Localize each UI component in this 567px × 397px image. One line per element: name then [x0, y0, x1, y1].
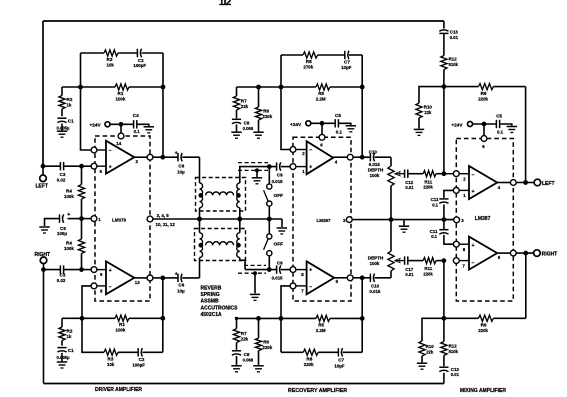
terminal LEFT input — [40, 175, 47, 182]
svg-text:ASSMB: ASSMB — [201, 299, 219, 305]
svg-text:R8: R8 — [306, 59, 312, 64]
pin 6 V+ recovery — [319, 134, 325, 140]
node R6 top upper — [256, 85, 261, 90]
wire C1 to ground upper — [61, 124, 63, 131]
svg-text:OFF: OFF — [274, 241, 284, 246]
wire R3 to C2 upper — [118, 52, 137, 54]
svg-text:+: + — [309, 164, 312, 170]
svg-text:RIGHT: RIGHT — [35, 252, 51, 258]
wire drive coil to ground bus lower — [199, 219, 201, 233]
pin 8 input + recovery lower — [290, 267, 296, 273]
resistor R9 lower 220k — [444, 317, 479, 319]
svg-text:R9: R9 — [481, 323, 487, 328]
svg-text:LEFT: LEFT — [542, 181, 555, 187]
node R7 corner lower — [235, 317, 238, 320]
capacitor C11 lower 0.1 — [439, 229, 448, 231]
wire drive coil to ground bus upper — [199, 208, 201, 219]
wire right input dropper — [43, 270, 45, 384]
pin 8 input - lower driver — [91, 283, 97, 289]
capacitor C12 0.01 — [404, 170, 406, 178]
op-amp U2a recovery upper half — [307, 141, 334, 174]
capacitor C7 upper 10pF — [344, 51, 346, 59]
wire feedback column to output lower — [525, 253, 527, 318]
wire feedback right column recovery upper — [361, 55, 363, 157]
wire feedback right column lower driver — [162, 278, 164, 352]
svg-text:4: 4 — [335, 160, 338, 165]
shield dashed upper cable — [238, 162, 268, 164]
wire C1 to ground lower — [61, 353, 63, 361]
wire R10 branch lower — [422, 318, 444, 341]
svg-text:0.068: 0.068 — [243, 126, 254, 131]
svg-text:R5: R5 — [318, 91, 324, 96]
svg-text:OFF: OFF — [274, 193, 284, 198]
svg-text:−: − — [472, 172, 475, 178]
resistor R5 upper 2.2M — [281, 86, 316, 88]
svg-text:2.2M: 2.2M — [316, 328, 326, 333]
svg-text:220k: 220k — [304, 362, 314, 367]
svg-text:−: − — [309, 284, 312, 290]
capacitor C5 0.1 recovery — [334, 119, 336, 127]
capacitor C9 upper 0.015 — [276, 162, 278, 170]
svg-text:4: 4 — [498, 185, 501, 190]
pin 14 V+ driver — [118, 133, 124, 139]
svg-text:C9: C9 — [277, 260, 283, 265]
svg-text:R2: R2 — [67, 97, 73, 102]
wire C3 to driver +in — [64, 165, 92, 167]
node supply recovery — [320, 121, 325, 126]
svg-text:7: 7 — [462, 263, 465, 268]
IC U2 LM387 dashed outline — [293, 137, 351, 301]
node pickup coil bus upper — [237, 217, 242, 222]
transformer tank lower dashed case — [195, 229, 246, 261]
wire feedback left column recovery lower — [281, 286, 290, 352]
svg-text:C2: C2 — [138, 58, 144, 63]
wire feedback right column recovery lower — [361, 278, 363, 353]
ground C6 — [39, 226, 49, 228]
wire pin6 stub recovery — [321, 123, 323, 134]
wire pickup coil to ground bus lower — [239, 219, 241, 233]
svg-text:+: + — [472, 189, 475, 195]
svg-text:510k: 510k — [449, 62, 459, 67]
wire left terminal stub — [42, 166, 44, 175]
node R1 right lower — [160, 316, 165, 321]
svg-text:R10: R10 — [424, 105, 433, 110]
capacitor C8 lower 0.068 — [236, 343, 238, 350]
resistor R7 lower 22k — [236, 318, 238, 328]
node right input junction — [41, 267, 46, 272]
pin 3 ground mixing — [454, 217, 460, 223]
resistor R11 upper 220k — [423, 171, 436, 177]
wire C4 to ground — [137, 124, 149, 126]
node mixing output lower — [523, 251, 528, 256]
pin 9 input + lower driver — [91, 267, 97, 273]
svg-text:+: + — [175, 271, 178, 277]
svg-text:ACCUTRONICS: ACCUTRONICS — [201, 305, 239, 311]
capacitor C8 upper 0.068 — [236, 110, 238, 118]
transformer tank upper dashed case — [196, 178, 246, 212]
wire output lower driver — [134, 277, 147, 279]
wire feedback left column recovery upper — [281, 55, 290, 150]
pin 5 output recovery lower — [347, 275, 353, 281]
svg-text:+: + — [472, 243, 475, 249]
node supply driver — [119, 122, 124, 127]
wire EQ row lower — [237, 317, 282, 319]
svg-text:R1: R1 — [119, 322, 125, 327]
svg-text:+24V: +24V — [451, 122, 463, 127]
node switch tap lower — [267, 267, 272, 272]
svg-text:0.015: 0.015 — [272, 275, 284, 280]
node feedback upper driver — [78, 85, 83, 90]
pin 2 input - mixing upper — [453, 171, 459, 177]
pin 7 input - mixing lower — [453, 258, 459, 264]
svg-text:2: 2 — [302, 151, 305, 156]
svg-text:LM387: LM387 — [317, 218, 332, 223]
wiper arrow DEPTH lower — [395, 260, 405, 262]
node left signal junction — [79, 164, 84, 169]
svg-text:+: + — [175, 151, 178, 157]
wiper arrow DEPTH upper — [395, 173, 405, 175]
wire pin1 to C11 upper — [444, 190, 454, 198]
ground R6 upper — [253, 131, 263, 133]
wire R8C7 loop bottom lower — [281, 351, 303, 353]
svg-text:0.015: 0.015 — [272, 179, 284, 184]
wire output recovery lower — [334, 277, 347, 279]
node recovery output upper — [360, 155, 365, 160]
svg-text:−: − — [472, 260, 475, 266]
svg-text:C13: C13 — [450, 30, 459, 35]
svg-text:C11: C11 — [430, 229, 438, 234]
node mixing feedback lower — [442, 316, 447, 321]
resistor R6 upper 220k — [258, 87, 260, 107]
wire C3 to driver +in lower — [64, 269, 92, 271]
svg-text:0.1: 0.1 — [431, 234, 437, 239]
IC U3 LM387 dashed outline — [456, 139, 513, 302]
ground shield lower — [250, 293, 260, 295]
node mixing output upper — [523, 180, 528, 185]
wire R3C2 loop bottom lower — [82, 318, 104, 352]
node mixing feedback upper — [442, 84, 447, 89]
wire top dry-left feed — [43, 20, 444, 22]
pin 4 output recovery upper — [347, 154, 353, 160]
svg-text:2.2M: 2.2M — [316, 97, 326, 102]
resistor R3 lower 10k — [104, 349, 118, 355]
wire drive coil bottom lower — [199, 258, 201, 278]
svg-text:0.01: 0.01 — [450, 35, 459, 40]
svg-text:0.068: 0.068 — [243, 358, 254, 363]
svg-text:R3: R3 — [108, 356, 114, 361]
svg-text:C1: C1 — [68, 118, 74, 123]
ground shield upper — [252, 177, 262, 179]
svg-text:+: + — [309, 268, 312, 274]
wire feedback right column upper driver — [162, 53, 164, 157]
svg-text:1: 1 — [98, 217, 101, 222]
node shield ground upper — [255, 168, 259, 172]
svg-text:13: 13 — [135, 280, 140, 285]
svg-text:10, 11, 12: 10, 11, 12 — [156, 222, 176, 227]
svg-text:+: + — [109, 268, 112, 274]
svg-text:C3: C3 — [60, 172, 66, 177]
svg-text:C12: C12 — [405, 180, 414, 185]
svg-text:22k: 22k — [241, 337, 249, 342]
svg-text:2: 2 — [463, 176, 466, 181]
ground C8 upper — [231, 131, 241, 133]
svg-text:RECOVERY AMPLIFIER: RECOVERY AMPLIFIER — [288, 388, 347, 394]
wire C8 to ground lower — [236, 356, 238, 365]
node bias center — [79, 216, 84, 221]
ground C5 mixing — [507, 126, 517, 128]
node mixing ground junction — [442, 217, 447, 222]
svg-text:220k: 220k — [423, 185, 433, 190]
svg-text:9: 9 — [100, 272, 103, 277]
op-amp U1a driver upper half — [106, 141, 134, 174]
wire right input to C3 — [44, 269, 61, 271]
svg-text:2: 2 — [136, 159, 139, 164]
svg-text:LM387: LM387 — [475, 216, 491, 222]
node supply mixing — [482, 122, 487, 127]
ground C4 — [144, 126, 154, 128]
svg-text:C6: C6 — [178, 164, 184, 169]
svg-text:0.015: 0.015 — [369, 289, 381, 294]
svg-text:+: + — [109, 165, 112, 171]
wire R1 row lower — [62, 317, 115, 319]
svg-text:10k: 10k — [107, 362, 115, 367]
node drive coil bus upper — [197, 217, 202, 222]
resistor R5 lower 2.2M — [281, 317, 316, 319]
svg-text:112: 112 — [219, 0, 232, 8]
node driver output upper — [160, 155, 165, 160]
svg-text:DRIVER AMPLIFIER: DRIVER AMPLIFIER — [95, 387, 142, 393]
wire feedback left column upper driver — [81, 53, 92, 150]
wire pin8 to C11 lower — [444, 235, 454, 244]
svg-text:1: 1 — [302, 169, 305, 174]
pin 1 input + recovery upper — [290, 164, 296, 170]
svg-text:14: 14 — [116, 141, 122, 146]
wire pickup coil top upper to C9 — [240, 167, 277, 183]
svg-text:0.1: 0.1 — [336, 130, 343, 135]
pin 3 ground recovery — [346, 217, 352, 223]
node feedback lower driver — [80, 316, 85, 321]
pin 6 input + upper driver — [91, 163, 97, 169]
svg-text:4502C1A: 4502C1A — [201, 312, 223, 318]
capacitor C2 upper 100pF — [136, 49, 138, 57]
svg-text:0.01: 0.01 — [451, 372, 460, 377]
node right signal junction — [79, 267, 84, 272]
node mixing input lower — [442, 258, 447, 263]
svg-text:C2: C2 — [139, 357, 145, 362]
svg-text:R4: R4 — [66, 241, 72, 246]
wire C6 to ground — [45, 219, 60, 226]
node R1 right upper — [161, 85, 166, 90]
capacitor C11 upper 0.1 — [439, 198, 448, 200]
svg-text:R12: R12 — [449, 344, 458, 349]
node drive coil bus lower — [197, 217, 202, 222]
svg-text:10µ: 10µ — [177, 288, 185, 293]
pin input - upper driver — [91, 147, 97, 153]
wire R8 to C7 lower — [318, 351, 338, 353]
resistor R2 lower 1k — [61, 318, 63, 327]
wire R8 to C7 upper — [318, 54, 345, 56]
capacitor C9 lower 0.015 — [245, 269, 277, 271]
pin 3,4,5,10,11,12 ground driver — [147, 216, 153, 222]
IC U1 LM378 dashed outline — [95, 136, 150, 301]
shield dashed lower cable — [244, 264, 266, 266]
pin 13 output lower driver — [147, 275, 153, 281]
resistor R8 lower 220k — [303, 349, 318, 355]
wire R1 row upper — [62, 86, 115, 88]
capacitor C5 0.1 mixing — [495, 120, 497, 128]
svg-text:8: 8 — [100, 289, 103, 294]
wire C11 to ground node upper — [443, 205, 445, 220]
pin 8 input + mixing lower — [453, 241, 459, 247]
capacitor C13 bottom 0.01 — [439, 366, 448, 368]
capacitor C6 100u bypass — [68, 218, 82, 220]
node feedback recovery upper — [279, 85, 284, 90]
capacitor C6 10u coupling upper — [163, 156, 178, 158]
node feedback recovery lower — [279, 316, 284, 321]
node R5 right lower — [360, 316, 365, 321]
node recovery output lower — [360, 275, 365, 280]
wire R10 branch upper — [419, 87, 444, 103]
svg-text:22k: 22k — [241, 104, 249, 109]
svg-text:R9: R9 — [481, 91, 487, 96]
resistor R8 upper 270k — [281, 54, 303, 56]
svg-text:C1: C1 — [68, 348, 74, 353]
svg-text:C5: C5 — [496, 114, 502, 119]
wire pin6 stub mixing — [483, 124, 485, 136]
wire EQ row upper — [237, 86, 282, 88]
svg-text:−: − — [109, 285, 112, 291]
capacitor C4 0.1 bypass — [133, 120, 135, 128]
svg-text:LM378: LM378 — [112, 217, 127, 222]
svg-text:100k: 100k — [116, 327, 126, 332]
svg-text:5: 5 — [336, 279, 339, 284]
svg-text:100pF: 100pF — [133, 63, 146, 68]
node spring right lower — [236, 243, 241, 248]
node R6 top lower — [256, 316, 261, 321]
svg-text:5: 5 — [498, 255, 501, 260]
inductor pickup coil upper tank — [237, 183, 240, 208]
svg-text:C7: C7 — [344, 59, 350, 64]
svg-text:270k: 270k — [303, 64, 313, 69]
svg-text:6: 6 — [320, 143, 323, 148]
wire pin14 stub — [120, 124, 122, 133]
svg-text:0.005µ: 0.005µ — [57, 355, 70, 360]
svg-text:R5: R5 — [318, 322, 324, 327]
wire C2 to right column upper — [142, 52, 163, 54]
svg-text:7: 7 — [301, 289, 304, 294]
wire pin7 node to feedback lower — [443, 261, 445, 319]
svg-text:−: − — [109, 148, 112, 154]
svg-text:220k: 220k — [262, 114, 272, 119]
svg-text:R6: R6 — [263, 339, 269, 344]
svg-text:0.02: 0.02 — [57, 278, 66, 283]
svg-text:C10: C10 — [371, 284, 380, 289]
capacitor C10 upper 0.015 — [362, 156, 370, 158]
svg-text:220k: 220k — [423, 271, 433, 276]
svg-text:100µF: 100µF — [132, 363, 145, 368]
svg-text:R8: R8 — [306, 357, 312, 362]
svg-text:DEPTH: DEPTH — [368, 256, 384, 261]
resistor R9 upper 220k — [444, 86, 479, 88]
svg-text:220k: 220k — [478, 328, 488, 333]
wire feedback column to output upper — [525, 87, 527, 183]
svg-text:C6: C6 — [178, 283, 184, 288]
svg-text:R2: R2 — [67, 329, 73, 334]
svg-text:R4: R4 — [66, 189, 72, 194]
inductor spring coupling lower — [206, 242, 234, 245]
resistor R4 lower 100k — [81, 219, 83, 239]
svg-text:0.01: 0.01 — [405, 272, 414, 277]
svg-text:10µF: 10µF — [334, 364, 344, 369]
svg-text:MIXING AMPLIFIER: MIXING AMPLIFIER — [460, 388, 506, 394]
terminal RIGHT output — [534, 250, 541, 257]
svg-text:REVERB: REVERB — [201, 285, 222, 291]
wire output recovery upper — [333, 156, 347, 158]
potentiometer DEPTH upper 100k — [390, 157, 392, 166]
resistor R10 lower 22k — [419, 341, 425, 356]
ground C5 recovery — [346, 125, 356, 127]
svg-text:LEFT: LEFT — [36, 184, 49, 190]
node switch bus upper — [267, 217, 272, 222]
capacitor C10 lower 0.015 — [362, 277, 370, 279]
wire bias to pin1 — [82, 218, 92, 220]
resistor R2 upper 1k — [61, 87, 63, 96]
svg-text:C4: C4 — [133, 113, 139, 118]
svg-text:C8: C8 — [244, 121, 250, 126]
wire left input to C3 — [43, 165, 60, 167]
wire R3C2 loop top upper — [81, 52, 105, 54]
svg-text:10pF: 10pF — [341, 65, 352, 70]
svg-text:220k: 220k — [262, 345, 272, 350]
resistor R12 bottom 510k — [443, 318, 445, 341]
svg-text:1k: 1k — [67, 334, 72, 339]
wire feedback left column lower driver — [82, 286, 91, 318]
node spring left upper — [199, 193, 204, 198]
svg-text:3: 3 — [461, 218, 464, 223]
svg-text:22k: 22k — [424, 110, 432, 115]
wire left input riser — [42, 21, 44, 166]
wire bottom dry-right feed — [44, 383, 444, 385]
resistor R4 upper 100k — [81, 166, 83, 184]
pin 1 bias driver — [91, 216, 97, 222]
svg-text:R7: R7 — [241, 99, 247, 104]
node switch tap upper — [267, 164, 272, 169]
capacitor C7 lower 10uF — [337, 348, 339, 356]
node left input junction — [41, 164, 46, 169]
svg-text:8: 8 — [463, 247, 466, 252]
svg-text:RIGHT: RIGHT — [542, 251, 558, 257]
capacitor C13 top 0.01 — [443, 21, 445, 29]
wire recovery pin3 to ground node — [352, 219, 454, 221]
wire output mixing upper — [497, 182, 510, 184]
capacitor C2 lower 100uF — [137, 348, 139, 356]
op-amp U3a mixing upper half — [469, 166, 497, 199]
inductor drive coil upper tank — [200, 183, 203, 208]
capacitor C1 lower 0.005u — [57, 347, 66, 349]
switch reverb OFF upper — [268, 167, 270, 184]
svg-text:10k: 10k — [107, 62, 115, 67]
wire C8 to ground upper — [236, 125, 238, 132]
pin 2 input - recovery upper — [290, 147, 296, 153]
svg-text:10µ: 10µ — [177, 170, 185, 175]
svg-text:0.1: 0.1 — [432, 203, 438, 208]
resistor R12 top 510k — [443, 33, 445, 55]
svg-text:22k: 22k — [426, 349, 434, 354]
ground R10 upper — [414, 128, 424, 130]
node shield ground lower — [253, 271, 257, 275]
pin 5 output mixing lower — [510, 250, 516, 256]
svg-text:8: 8 — [301, 272, 304, 277]
